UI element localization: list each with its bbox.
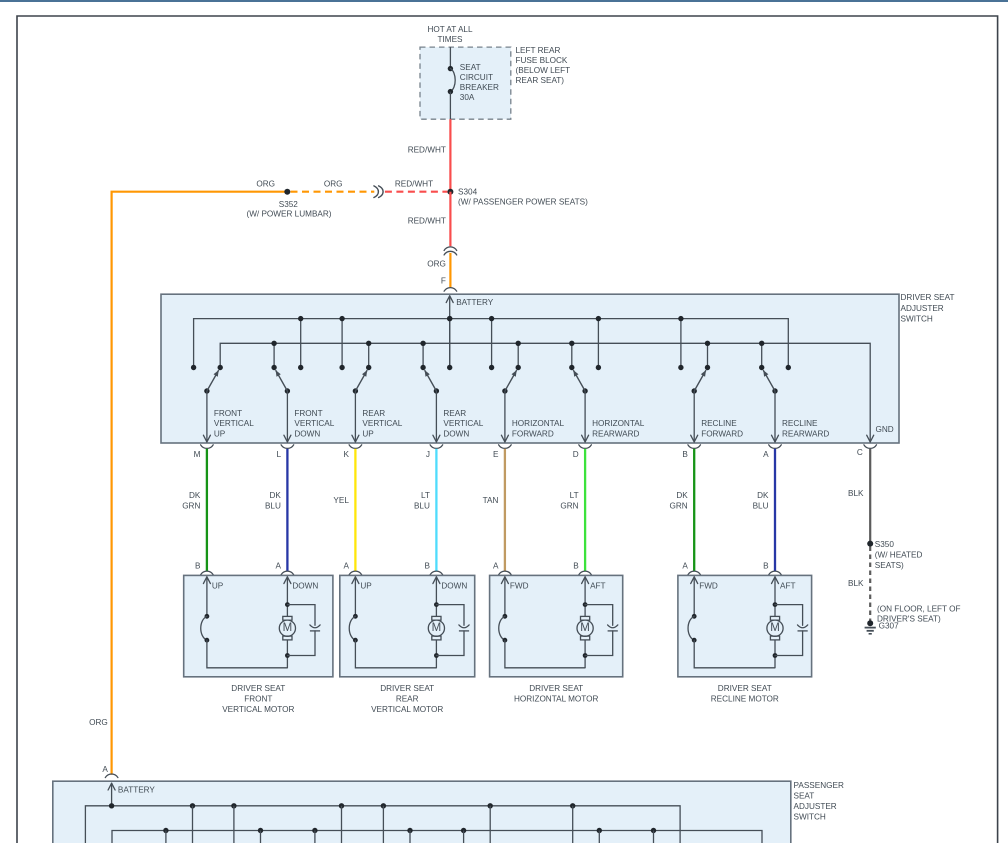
passenger bus wire ground (lower) — [112, 831, 762, 843]
right lead, motor M and capacitor — [775, 577, 779, 584]
svg-text:REARWARD: REARWARD — [782, 429, 829, 438]
svg-text:BATTERY: BATTERY — [456, 298, 494, 307]
splice S350 — [867, 541, 873, 547]
svg-text:PASSENGER: PASSENGER — [794, 781, 844, 790]
terminal K — [349, 445, 362, 449]
svg-text:FUSE BLOCK: FUSE BLOCK — [516, 56, 568, 65]
svg-text:BLU: BLU — [265, 501, 281, 510]
svg-text:TIMES: TIMES — [437, 35, 463, 44]
svg-text:G307: G307 — [879, 622, 899, 631]
svg-text:RECLINE MOTOR: RECLINE MOTOR — [711, 695, 779, 704]
svg-text:ORG: ORG — [427, 259, 446, 268]
motor box: DRIVER SEAT HORIZONTAL MOTOR — [490, 575, 623, 676]
svg-text:TAN: TAN — [483, 496, 499, 505]
svg-text:S350: S350 — [875, 540, 895, 549]
svg-text:ADJUSTER: ADJUSTER — [794, 802, 837, 811]
svg-text:VERTICAL: VERTICAL — [362, 419, 402, 428]
svg-text:B: B — [195, 561, 201, 570]
svg-text:SEATS): SEATS) — [875, 561, 904, 570]
decorative top bar — [0, 0, 1008, 2]
svg-text:BATTERY: BATTERY — [118, 785, 156, 794]
connector at terminal F — [444, 288, 457, 292]
svg-text:F: F — [441, 277, 446, 286]
svg-text:REAR SEAT): REAR SEAT) — [516, 76, 565, 85]
svg-text:BLK: BLK — [848, 489, 864, 498]
passenger bus junctions — [190, 803, 195, 808]
inline connector on battery feed — [444, 247, 457, 251]
svg-text:REAR: REAR — [396, 695, 419, 704]
svg-text:B: B — [682, 450, 688, 459]
svg-text:D: D — [573, 450, 579, 459]
svg-text:DK: DK — [189, 491, 201, 500]
svg-text:ORG: ORG — [256, 180, 275, 189]
wire BLK dashed to ground — [869, 547, 871, 621]
svg-text:30A: 30A — [460, 93, 475, 102]
wire DK BLU — [774, 449, 776, 571]
svg-text:UP: UP — [214, 429, 226, 438]
wire DK GRN — [206, 449, 208, 571]
svg-text:A: A — [763, 450, 769, 459]
svg-text:ADJUSTER: ADJUSTER — [901, 304, 944, 313]
svg-text:(W/ POWER LUMBAR): (W/ POWER LUMBAR) — [246, 210, 331, 219]
svg-text:FRONT: FRONT — [214, 409, 242, 418]
svg-text:(W/ HEATED: (W/ HEATED — [875, 551, 923, 560]
svg-text:DRIVER SEAT: DRIVER SEAT — [231, 684, 285, 693]
wire RED/WHT dashed to S304 — [385, 191, 448, 193]
svg-text:HORIZONTAL MOTOR: HORIZONTAL MOTOR — [514, 695, 599, 704]
svg-text:M: M — [283, 622, 293, 634]
svg-text:REAR: REAR — [443, 409, 466, 418]
svg-text:HOT AT ALL: HOT AT ALL — [427, 25, 472, 34]
svg-text:CIRCUIT: CIRCUIT — [460, 73, 493, 82]
terminal M — [201, 445, 214, 449]
svg-text:VERTICAL MOTOR: VERTICAL MOTOR — [371, 705, 443, 714]
svg-text:YEL: YEL — [333, 496, 349, 505]
svg-text:DRIVER SEAT: DRIVER SEAT — [718, 684, 772, 693]
svg-text:DOWN: DOWN — [441, 582, 467, 591]
wire DK GRN — [693, 449, 695, 571]
right lead, motor M and capacitor — [436, 577, 440, 584]
switch M: FRONT VERTICAL UP — [191, 365, 196, 370]
svg-text:VERTICAL: VERTICAL — [443, 419, 483, 428]
svg-text:A: A — [344, 561, 350, 570]
svg-text:S304: S304 — [458, 187, 478, 196]
svg-text:GRN: GRN — [560, 501, 578, 510]
wire LT BLU — [435, 449, 437, 571]
svg-text:DRIVER SEAT: DRIVER SEAT — [901, 293, 955, 302]
svg-text:(ON FLOOR, LEFT OF: (ON FLOOR, LEFT OF — [877, 605, 961, 614]
svg-text:SWITCH: SWITCH — [901, 314, 933, 323]
svg-text:DK: DK — [270, 491, 282, 500]
capacitor — [287, 605, 315, 626]
inline connector (orange to red) — [374, 186, 379, 198]
GND arrow — [867, 435, 871, 442]
svg-text:BLK: BLK — [848, 579, 864, 588]
svg-text:DK: DK — [757, 491, 769, 500]
left lead with thermal breaker — [694, 577, 698, 584]
svg-text:K: K — [344, 450, 350, 459]
svg-text:REAR: REAR — [362, 409, 385, 418]
svg-text:DK: DK — [676, 491, 688, 500]
svg-text:S352: S352 — [279, 200, 299, 209]
splice S352 — [284, 189, 290, 195]
svg-text:DOWN: DOWN — [443, 429, 469, 438]
right lead, motor M and capacitor — [287, 577, 291, 584]
switch L: FRONT VERTICAL DOWN — [273, 343, 275, 367]
bus wire ground (lower) — [220, 343, 870, 440]
ground G307 — [867, 620, 873, 626]
svg-text:GND: GND — [876, 425, 894, 434]
capacitor — [775, 605, 803, 626]
svg-text:DRIVER SEAT: DRIVER SEAT — [380, 684, 434, 693]
svg-text:FORWARD: FORWARD — [512, 429, 554, 438]
svg-text:SWITCH: SWITCH — [794, 813, 826, 822]
svg-text:A: A — [102, 765, 108, 774]
wire BLK from terminal C — [869, 449, 871, 544]
svg-text:M: M — [580, 622, 590, 634]
svg-text:LT: LT — [570, 491, 579, 500]
driver seat adjuster switch box — [161, 294, 899, 443]
wire ORG horizontal + left vertical drop — [112, 192, 288, 774]
motor box: DRIVER SEAT RECLINE MOTOR — [678, 575, 812, 676]
left lead with thermal breaker — [355, 577, 359, 584]
svg-text:B: B — [763, 561, 769, 570]
capacitor — [585, 605, 613, 626]
svg-text:FORWARD: FORWARD — [701, 429, 743, 438]
svg-text:BLU: BLU — [753, 501, 769, 510]
svg-text:J: J — [426, 450, 430, 459]
capacitor — [436, 605, 464, 626]
svg-text:LEFT REAR: LEFT REAR — [516, 46, 561, 55]
svg-text:VERTICAL: VERTICAL — [294, 419, 334, 428]
switch B: RECLINE FORWARD — [680, 319, 682, 368]
terminal A — [769, 445, 782, 449]
terminal L — [281, 445, 294, 449]
circuit breaker SEAT CIRCUIT BREAKER 30A — [449, 47, 451, 69]
svg-text:SEAT: SEAT — [460, 63, 481, 72]
switch J: REAR VERTICAL DOWN — [422, 343, 424, 367]
switch D: HORIZONTAL REARWARD — [571, 343, 573, 367]
svg-text:(BELOW LEFT: (BELOW LEFT — [516, 66, 571, 75]
svg-text:(W/ PASSENGER POWER SEATS): (W/ PASSENGER POWER SEATS) — [458, 197, 588, 206]
svg-text:ORG: ORG — [324, 180, 343, 189]
svg-text:FRONT: FRONT — [294, 409, 322, 418]
svg-text:UP: UP — [360, 582, 372, 591]
svg-text:C: C — [857, 448, 863, 457]
svg-text:UP: UP — [362, 429, 374, 438]
svg-text:ORG: ORG — [89, 718, 108, 727]
svg-text:FWD: FWD — [510, 582, 529, 591]
svg-text:A: A — [493, 561, 499, 570]
svg-text:HORIZONTAL: HORIZONTAL — [592, 419, 645, 428]
terminal B — [688, 445, 701, 449]
svg-text:FWD: FWD — [699, 582, 718, 591]
svg-text:LT: LT — [421, 491, 430, 500]
svg-text:HORIZONTAL: HORIZONTAL — [512, 419, 565, 428]
terminal E — [499, 445, 512, 449]
wire RED/WHT from breaker to S304 — [449, 119, 451, 192]
wire DK BLU — [286, 449, 288, 571]
svg-text:RED/WHT: RED/WHT — [408, 216, 446, 225]
svg-text:REARWARD: REARWARD — [592, 429, 639, 438]
svg-text:UP: UP — [212, 582, 224, 591]
BATTERY feed arrow (passenger) — [111, 783, 113, 805]
svg-text:B: B — [573, 561, 579, 570]
right lead, motor M and capacitor — [585, 577, 589, 584]
svg-text:A: A — [276, 561, 282, 570]
wire YEL — [354, 449, 356, 571]
switch E: HORIZONTAL FORWARD — [491, 319, 493, 368]
svg-text:M: M — [770, 622, 780, 634]
svg-text:DOWN: DOWN — [292, 582, 318, 591]
svg-text:GRN: GRN — [182, 501, 200, 510]
svg-text:BLU: BLU — [414, 501, 430, 510]
motor box: DRIVER SEAT FRONT VERTICAL MOTOR — [184, 575, 333, 676]
switch A: RECLINE REARWARD — [761, 343, 763, 367]
svg-text:GRN: GRN — [669, 501, 687, 510]
svg-text:VERTICAL MOTOR: VERTICAL MOTOR — [222, 705, 294, 714]
svg-text:B: B — [425, 561, 431, 570]
svg-text:FRONT: FRONT — [244, 695, 272, 704]
wire TAN — [504, 449, 506, 571]
svg-text:E: E — [493, 450, 499, 459]
BATTERY feed arrow into switch — [449, 296, 451, 319]
left lead with thermal breaker — [505, 577, 509, 584]
terminal J — [430, 445, 443, 449]
splice S304 — [447, 189, 453, 195]
svg-text:AFT: AFT — [780, 582, 795, 591]
svg-text:RED/WHT: RED/WHT — [395, 180, 433, 189]
passenger bus wire battery (upper) — [85, 806, 680, 843]
left rear fuse block (dashed box) — [420, 47, 511, 119]
svg-text:M: M — [432, 622, 442, 634]
svg-text:VERTICAL: VERTICAL — [214, 419, 254, 428]
svg-text:RECLINE: RECLINE — [701, 419, 737, 428]
terminal D — [579, 445, 592, 449]
wire LT GRN — [584, 449, 586, 571]
left lead with thermal breaker — [207, 577, 211, 584]
svg-text:RED/WHT: RED/WHT — [408, 146, 446, 155]
passenger seat adjuster switch box — [53, 781, 791, 843]
wire ORG dashed (w/ power lumbar option) — [291, 191, 375, 193]
svg-text:L: L — [276, 450, 281, 459]
svg-text:M: M — [194, 450, 201, 459]
bus wire battery (upper) — [194, 319, 789, 368]
wire ORG to terminal F — [449, 253, 451, 288]
svg-text:RECLINE: RECLINE — [782, 419, 818, 428]
svg-text:DRIVER SEAT: DRIVER SEAT — [529, 684, 583, 693]
svg-text:DOWN: DOWN — [294, 429, 320, 438]
svg-text:SEAT: SEAT — [794, 792, 815, 801]
svg-text:AFT: AFT — [590, 582, 605, 591]
switch K: REAR VERTICAL UP — [341, 319, 343, 368]
wire RED/WHT from S304 down to inline connector — [449, 192, 451, 247]
svg-text:A: A — [682, 561, 688, 570]
svg-text:BREAKER: BREAKER — [460, 83, 499, 92]
motor box: DRIVER SEAT REAR VERTICAL MOTOR — [340, 575, 475, 676]
terminal C (ground) — [864, 445, 877, 449]
